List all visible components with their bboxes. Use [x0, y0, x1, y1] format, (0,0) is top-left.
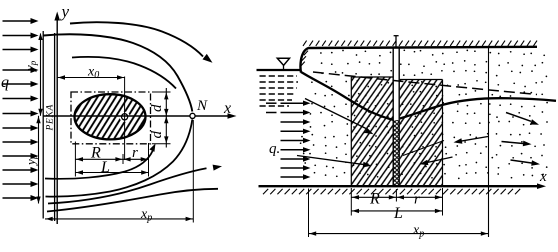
vertical centre line through drain centre mark [124, 77, 126, 161]
well screen (cross-hatched) [394, 120, 400, 185]
streamline T2 dividing (boundary) upper half, from river to stagnation point N [44, 34, 193, 111]
dimension x_p (right diagram) [309, 223, 489, 240]
converging arrow lower-left into block [297, 156, 372, 168]
extension line x_p right (right diagram, full height) [488, 48, 490, 238]
well casing lines [392, 49, 394, 186]
svg-text:q: q [1, 74, 9, 91]
streamline C bottom [47, 189, 218, 212]
ground surface with bank slope [300, 47, 537, 73]
base hatch ticks [263, 189, 520, 194]
stagnation point N [190, 113, 195, 118]
y axis [54, 12, 60, 225]
extension line left (R/L dimensions) [74, 142, 76, 177]
dimension R (left diagram) [75, 145, 123, 165]
dimension y_p lower (capture half-width below axis) [23, 116, 41, 204]
dimension r (left diagram) [123, 145, 148, 162]
svg-text:x: x [539, 169, 547, 185]
extension line x_p left (right diagram) [308, 189, 310, 238]
flow arrows q (left column, river inflow) [3, 18, 39, 201]
depression curve right branch [400, 98, 556, 118]
dimension x0 (centre offset from river) [57, 65, 124, 82]
hatched block left of well [351, 77, 392, 185]
streamline boundary lower half, N back to river [46, 120, 193, 197]
river bank left line [42, 31, 44, 219]
label PEKA (river), vertical [46, 104, 56, 132]
well stub above ground [394, 36, 399, 49]
converging arrow right toward screen (low) [420, 157, 453, 165]
extension line mid at well [395, 189, 397, 202]
extension line r right (right diagram) [442, 188, 444, 216]
svg-text:r: r [132, 145, 138, 161]
streamline inner bottom with arrow toward gap [45, 144, 156, 179]
dimension d lower [149, 116, 169, 143]
x axis [43, 113, 236, 119]
centre mark circle of drain [122, 114, 128, 120]
svg-text:y: y [60, 2, 70, 21]
streamline B lower, exits with arrow [48, 165, 222, 204]
svg-text:x: x [223, 100, 231, 117]
far-right natural flow arrow 2 [502, 141, 532, 147]
svg-text:r: r [414, 192, 420, 208]
svg-text:N: N [196, 98, 208, 114]
far-right natural flow arrow 1 [506, 113, 539, 125]
streamline T3 inner top [72, 57, 176, 89]
flow arrows q (right diagram, from river) [266, 101, 311, 180]
dimension x_p (left diagram) [45, 207, 193, 224]
far-right natural flow arrow 3 [511, 160, 541, 166]
water level symbol (nabla) [277, 58, 289, 69]
drain contour ellipse, hatched [75, 94, 146, 139]
soil dots texture [300, 49, 548, 179]
dimension R (right diagram) [351, 191, 396, 208]
dimension L (right diagram) [351, 205, 442, 222]
svg-text:q.: q. [269, 141, 280, 157]
extension line right (r/L dimensions) [148, 143, 150, 177]
svg-text:R: R [90, 145, 101, 162]
white pad around centre mark [119, 112, 129, 122]
impermeable base / x axis (right diagram) [259, 183, 547, 189]
depression curve left branch [301, 72, 393, 120]
thin leader into screen from right [403, 141, 444, 156]
svg-text:d: d [149, 104, 165, 112]
svg-text:R: R [369, 191, 380, 208]
dimension y_p upper (capture half-width above axis) [22, 33, 43, 116]
streamline T1 outer top, exits right with arrow [70, 22, 213, 63]
static water table (dashed) [313, 72, 537, 95]
dimension r (right diagram) [396, 192, 442, 208]
river bank right line [54, 33, 56, 221]
svg-text:d: d [149, 131, 165, 139]
svg-text:L: L [100, 159, 110, 176]
dimension d upper (half-height of drain) [149, 88, 171, 148]
dimension L (left diagram) [75, 159, 148, 176]
water surface line (river, cross-section) [257, 69, 302, 71]
ground hatch ticks [301, 41, 537, 67]
converging arrow upper-left into block [305, 99, 374, 135]
extension line below N [192, 120, 194, 223]
dash-dot bounding box of drain [71, 92, 151, 144]
water texture dashes [260, 76, 299, 106]
hatched block right of well [400, 80, 443, 186]
svg-text:L: L [393, 205, 403, 222]
extension line R left (right diagram) [350, 188, 352, 216]
converging arrow right toward screen (mid) [454, 137, 489, 144]
